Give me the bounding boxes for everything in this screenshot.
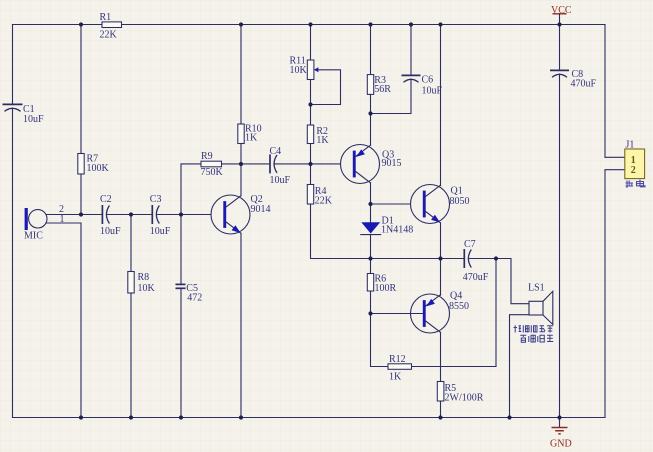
junction Q3 base node bbox=[308, 162, 312, 166]
capacitor C1 bbox=[3, 104, 45, 125]
svg-text:1K: 1K bbox=[389, 371, 402, 382]
junction Q2 collector node bbox=[239, 162, 243, 166]
junction ground rail LS1 bbox=[507, 415, 511, 419]
resistor R5 bbox=[437, 382, 483, 404]
svg-text:22K: 22K bbox=[100, 29, 118, 40]
svg-text:R8: R8 bbox=[138, 272, 150, 283]
svg-text:9015: 9015 bbox=[382, 158, 402, 169]
wire left edge above C1 bbox=[12, 25, 14, 104]
potentiometer R11 bbox=[290, 55, 341, 104]
wire MIC pin 1 to ground rail bbox=[47, 223, 82, 418]
wire Q1 collector from top rail bbox=[440, 25, 442, 186]
svg-text:100K: 100K bbox=[87, 163, 110, 174]
svg-text:MIC: MIC bbox=[24, 231, 43, 242]
svg-text:R1: R1 bbox=[100, 12, 112, 23]
wire Q3 base bbox=[311, 163, 354, 165]
junction top rail Q1 bbox=[438, 22, 442, 26]
svg-text:C2: C2 bbox=[100, 194, 112, 205]
wire C5 to ground rail bbox=[180, 289, 182, 418]
wire C8 to ground rail bbox=[559, 74, 561, 418]
wire bottom ground rail bbox=[13, 417, 606, 419]
svg-text:9014: 9014 bbox=[251, 204, 271, 215]
wire R3 branch from top rail bbox=[370, 25, 372, 75]
svg-text:10K: 10K bbox=[138, 283, 156, 294]
transistor Q1 bbox=[411, 185, 470, 224]
svg-text:C4: C4 bbox=[270, 146, 282, 157]
svg-text:10uF: 10uF bbox=[422, 85, 443, 96]
wire Q4 base bbox=[371, 313, 423, 315]
wire C6 branch from top rail bbox=[410, 25, 412, 75]
wire R9 to collector node bbox=[222, 163, 242, 165]
svg-text:750K: 750K bbox=[201, 167, 224, 178]
junction ground rail C5 bbox=[179, 415, 183, 419]
junction MIC node bbox=[79, 212, 83, 216]
wire MIC pin 2 bbox=[47, 214, 82, 216]
svg-text:R12: R12 bbox=[389, 354, 406, 365]
wire R8 branch bbox=[130, 215, 132, 272]
transistor Q2 bbox=[211, 194, 271, 234]
svg-text:470uF: 470uF bbox=[463, 272, 489, 283]
capacitor C8 bbox=[550, 69, 597, 90]
capacitor C5 bbox=[176, 283, 203, 304]
power VCC bbox=[551, 5, 572, 25]
connector J1 bbox=[625, 140, 645, 179]
wire J1 pin2 drop to bottom rail bbox=[605, 170, 625, 418]
capacitor C3 bbox=[150, 194, 171, 237]
svg-text:10uF: 10uF bbox=[23, 114, 44, 125]
junction R8 node bbox=[129, 212, 133, 216]
wire C3 to Q2 base bbox=[157, 214, 224, 216]
wire R7 branch from top rail bbox=[80, 25, 82, 154]
svg-text:GND: GND bbox=[550, 438, 572, 449]
wire top supply rail bbox=[13, 24, 606, 26]
junction top rail VCC bbox=[557, 22, 561, 26]
wire to D1 anode bbox=[370, 204, 372, 222]
wire Q4 base node down to R12 bbox=[371, 314, 389, 367]
capacitor C4 bbox=[270, 146, 291, 186]
junction top rail R3 bbox=[368, 22, 372, 26]
wire R10 to collector node bbox=[240, 144, 242, 165]
wire MIC node to C2 bbox=[81, 214, 101, 216]
junction R3 C6 node bbox=[368, 111, 372, 115]
resistor R3 bbox=[367, 75, 391, 95]
label 音频输出 (speaker note line 2) pseudo-glyphs bbox=[520, 335, 553, 343]
svg-text:472: 472 bbox=[187, 293, 202, 304]
wire speaker return to ground rail bbox=[510, 315, 530, 418]
resistor R4 bbox=[307, 185, 333, 207]
svg-text:Q1: Q1 bbox=[451, 185, 463, 196]
resistor R7 bbox=[78, 154, 110, 175]
svg-text:8050: 8050 bbox=[450, 196, 470, 207]
resistor R9 bbox=[201, 151, 224, 178]
resistor R2 bbox=[307, 125, 329, 146]
wire J1 pin1 drop from top rail bbox=[605, 25, 625, 158]
junction C5 R9 node bbox=[179, 212, 183, 216]
label 接喇叭或者 (speaker note line 1) pseudo-glyphs bbox=[514, 325, 554, 332]
junction top rail R11 bbox=[308, 22, 312, 26]
svg-text:10K: 10K bbox=[290, 65, 308, 76]
svg-text:1N4148: 1N4148 bbox=[381, 224, 413, 235]
ground GND bbox=[550, 418, 572, 450]
svg-text:C6: C6 bbox=[422, 74, 434, 85]
wire R8 to ground rail bbox=[130, 293, 132, 418]
junction ground rail Q2 bbox=[239, 415, 243, 419]
svg-text:10uF: 10uF bbox=[150, 226, 171, 237]
junction ground rail MIC bbox=[79, 415, 83, 419]
wire VCC rail to C8 bbox=[559, 25, 561, 70]
wire R9 branch up bbox=[181, 164, 201, 215]
resistor R6 bbox=[367, 274, 396, 295]
svg-text:8550: 8550 bbox=[449, 301, 469, 312]
wire Q3 collector down bbox=[370, 183, 372, 204]
wire Q1 emitter to output node bbox=[440, 223, 442, 259]
junction D1 output node bbox=[368, 256, 372, 260]
wire Q4 collector to R5 bbox=[440, 332, 442, 381]
svg-text:1K: 1K bbox=[316, 135, 329, 146]
wire collector node to C4 bbox=[241, 163, 269, 165]
wire output node to C7 bbox=[371, 258, 464, 260]
wire emitter node to Q3 bbox=[370, 114, 372, 146]
svg-text:2W/100R: 2W/100R bbox=[445, 393, 484, 404]
svg-text:2: 2 bbox=[631, 165, 636, 176]
wire D1 cathode to output node bbox=[370, 235, 372, 259]
wire R6 from output node bbox=[370, 259, 372, 274]
svg-text:470uF: 470uF bbox=[571, 78, 597, 89]
wire R10 branch from top rail bbox=[240, 25, 242, 125]
resistor R12 bbox=[388, 354, 412, 383]
wire C4 to R2 node bbox=[275, 163, 311, 165]
junction top rail C6 bbox=[409, 22, 413, 26]
wire Q2 emitter to ground rail bbox=[240, 233, 242, 417]
capacitor C6 bbox=[402, 74, 443, 96]
resistor R8 bbox=[128, 272, 156, 295]
wire R4 from base node bbox=[310, 164, 312, 185]
wire R12 to bootstrap riser bbox=[412, 259, 497, 367]
svg-text:56R: 56R bbox=[374, 84, 391, 95]
wire C6 to emitter node bbox=[371, 79, 412, 114]
transistor Q4 bbox=[411, 291, 470, 333]
svg-text:10uF: 10uF bbox=[100, 226, 121, 237]
wire R4 down to output wire bbox=[311, 204, 371, 259]
wire Q2 collector bbox=[240, 164, 242, 196]
wire R3 to emitter node bbox=[370, 94, 372, 113]
wire R11 branch from top rail bbox=[310, 25, 312, 61]
resistor R10 bbox=[238, 124, 262, 144]
label 供电 (power) pseudo-glyphs bbox=[626, 180, 646, 189]
resistor R1 bbox=[100, 12, 122, 41]
svg-text:22K: 22K bbox=[315, 196, 333, 207]
junction Q4 base node bbox=[368, 311, 372, 315]
wire Q3 collector to Q1 base bbox=[371, 203, 423, 205]
diode D1 bbox=[361, 215, 413, 235]
transistor Q3 bbox=[341, 145, 402, 184]
svg-text:10uF: 10uF bbox=[270, 175, 291, 186]
svg-text:J1: J1 bbox=[626, 140, 635, 151]
speaker LS1 bbox=[528, 282, 553, 324]
svg-text:100R: 100R bbox=[375, 283, 397, 294]
svg-text:C7: C7 bbox=[464, 239, 476, 250]
wire Q4 emitter from output node bbox=[440, 259, 442, 296]
wire R2 to Q3 base node bbox=[310, 144, 312, 165]
microphone MIC bbox=[24, 208, 47, 242]
wire R7 to MIC node bbox=[80, 174, 82, 215]
junction ground rail R8 bbox=[129, 415, 133, 419]
wire C2 to C3 bbox=[107, 214, 151, 216]
junction top rail R10 bbox=[239, 22, 243, 26]
wire R11 to R2 bbox=[310, 80, 312, 126]
capacitor C7 bbox=[463, 239, 489, 283]
wire R6 to Q4 base node bbox=[370, 291, 372, 314]
junction Q3 collector node bbox=[368, 202, 372, 206]
capacitor C2 bbox=[100, 194, 121, 237]
junction Q1 Q4 emitter node bbox=[438, 256, 442, 260]
junction bootstrap node bbox=[494, 256, 498, 260]
junction ground rail R5 bbox=[438, 415, 442, 419]
svg-text:C3: C3 bbox=[150, 194, 162, 205]
wire C7 to speaker bbox=[469, 259, 529, 304]
junction ground rail GND bbox=[557, 415, 561, 419]
wire R5 to ground rail bbox=[440, 401, 442, 418]
svg-text:R9: R9 bbox=[201, 151, 213, 162]
junction top rail R7 bbox=[79, 22, 83, 26]
wire C5 branch bbox=[180, 215, 182, 284]
svg-text:LS1: LS1 bbox=[528, 282, 545, 293]
wire left edge below C1 bbox=[12, 108, 14, 418]
svg-text:1K: 1K bbox=[245, 132, 258, 143]
junction R11 wiper node bbox=[308, 102, 312, 106]
